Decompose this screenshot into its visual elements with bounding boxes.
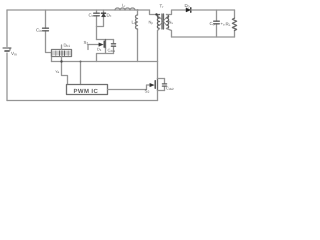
svg-text:Db1: Db1: [64, 43, 71, 49]
svg-text:Lm: Lm: [132, 20, 137, 26]
gate-drive box winding marks: [60, 51, 65, 56]
right rail with load: [234, 10, 236, 37]
wire diode to top right corner: [191, 9, 235, 11]
svg-text:Cds1: Cds1: [108, 48, 116, 54]
gate-drive box: [52, 50, 72, 57]
svg-text:Co: Co: [210, 21, 215, 27]
junction bus-pin2: [80, 61, 82, 63]
inductor Lr (series, top rail): [115, 8, 135, 10]
capacitor Cds2 plates: [162, 84, 166, 86]
svg-text:Cc: Cc: [89, 13, 94, 19]
svg-text:Np: Np: [149, 20, 154, 26]
capacitor Cds1 wires: [113, 40, 115, 54]
svg-text:Dc: Dc: [107, 13, 112, 19]
svg-text:Lr: Lr: [122, 2, 125, 8]
transistor S2 channel: [157, 79, 159, 91]
svg-text:Do: Do: [185, 3, 190, 9]
polarity dot secondary: [167, 16, 169, 18]
wire bottom rail: [7, 100, 158, 102]
svg-text:RL: RL: [226, 22, 231, 28]
capacitor Co wires: [216, 10, 218, 37]
capacitor Cin branch wires: [46, 10, 52, 62]
wire box to bus: [61, 57, 63, 62]
wire secondary bottom: [167, 29, 172, 38]
resistor RL zigzag: [232, 18, 236, 30]
wire S2 source to bottom rail: [157, 91, 159, 101]
svg-text:Ns: Ns: [169, 20, 174, 26]
clamp capacitor Cc branch: [96, 10, 98, 27]
svg-text:S2: S2: [145, 89, 150, 95]
wire controller output: [108, 85, 150, 90]
controller box: [67, 85, 108, 95]
clamp capacitor Cc plates: [94, 13, 100, 16]
capacitor Co plates: [214, 21, 220, 24]
transformer core: [162, 14, 164, 29]
capacitor Cds2 wires: [164, 79, 166, 91]
transformer secondary winding: [167, 15, 169, 29]
gate-drive box top stub: [61, 45, 63, 50]
capacitor Cin plates: [43, 28, 49, 31]
wire top rail left: [7, 9, 150, 11]
battery Vin: [3, 47, 11, 49]
wire bus to controller pin1: [62, 62, 68, 85]
wire S1 top node: [97, 39, 114, 41]
wire primary bottom to S2: [158, 29, 160, 62]
svg-text:D1: D1: [97, 48, 102, 53]
inductor Lm coil: [136, 15, 138, 29]
transistor S2 gate arrow: [150, 83, 154, 86]
transistor S2 drain wire: [157, 62, 159, 79]
capacitor Cds1 plates: [111, 44, 115, 46]
wire step down to primary: [150, 10, 160, 15]
junction Lm top: [137, 9, 139, 11]
wire mid bus: [52, 61, 158, 63]
wire S2 top/bottom nodes: [158, 79, 165, 91]
transistor S1 gate lead: [88, 45, 100, 50]
wire secondary bottom rail: [172, 36, 235, 38]
svg-text:Cin: Cin: [36, 28, 42, 34]
wire secondary top to diode: [167, 10, 187, 15]
svg-text:PWM IC: PWM IC: [74, 88, 99, 95]
inductor Lm branch: [137, 10, 139, 62]
svg-text:va: va: [56, 69, 60, 75]
diode Do symbol: [186, 8, 191, 12]
transformer primary winding: [157, 15, 159, 29]
wire S1 bottom node: [97, 49, 114, 62]
polarity dot primary: [157, 16, 159, 18]
svg-text:S1: S1: [84, 40, 89, 46]
svg-text:+o: +o: [221, 21, 225, 27]
junction bus-pin1: [60, 60, 62, 62]
clamp diode Dc symbol: [101, 12, 105, 14]
transistor S1 channel: [105, 40, 107, 49]
junction primary top: [155, 13, 157, 15]
transformer diagonal texture: [160, 17, 167, 26]
svg-text:Tr: Tr: [160, 4, 165, 10]
wire left rail: [6, 10, 8, 101]
clamp diode Dc branch: [97, 10, 104, 27]
wire bus to controller pin2: [80, 62, 82, 85]
wire clamp to S1 drain: [96, 27, 98, 40]
svg-text:Vin: Vin: [11, 51, 17, 57]
transistor S1 gate arrow: [99, 43, 103, 46]
svg-text:Cds2: Cds2: [166, 86, 174, 92]
